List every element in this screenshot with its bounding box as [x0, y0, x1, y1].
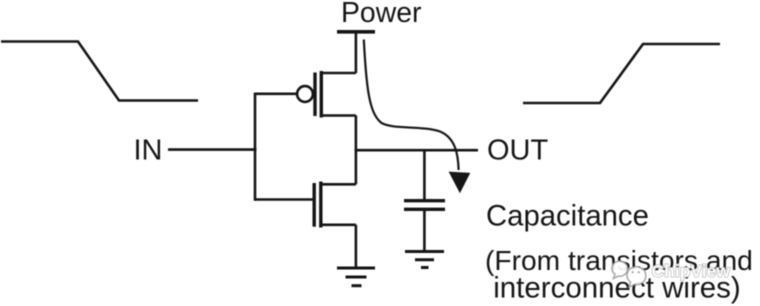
annotation arrow: power-to-output discharge curve	[364, 40, 459, 171]
transistor PMOS: drain lead	[321, 114, 356, 117]
input falling-edge waveform	[1, 42, 198, 101]
svg-text:IN: IN	[134, 135, 163, 167]
wire: power rail to PMOS source	[355, 32, 358, 73]
transistor NMOS: drain lead	[321, 183, 356, 186]
svg-text:Capacitance: Capacitance	[486, 200, 649, 233]
transistor NMOS: source lead	[321, 224, 356, 227]
wire: PMOS drain to output node	[355, 116, 358, 152]
svg-text:OUT: OUT	[487, 135, 549, 167]
svg-text:Power: Power	[341, 0, 421, 29]
svg-text:ChipView: ChipView	[652, 261, 731, 281]
wire OUT	[356, 149, 478, 152]
wire: NMOS gate	[255, 198, 313, 201]
ground (NMOS source)	[337, 268, 375, 286]
transistor PMOS: gate bar	[313, 73, 316, 117]
transistor NMOS: gate bar	[313, 183, 316, 227]
ground (capacitor)	[405, 252, 444, 268]
transistor NMOS: channel bar	[319, 182, 322, 228]
watermark logo: chat bubbles	[612, 261, 646, 287]
wire IN	[168, 148, 257, 151]
transistor PMOS: gate bubble	[297, 86, 313, 102]
capacitor C: bottom stub	[423, 211, 426, 252]
wire: PMOS gate	[255, 93, 298, 96]
wire: input vertical (gate tie)	[254, 93, 257, 201]
capacitor C: plates	[404, 199, 445, 202]
wire: NMOS source to ground	[355, 225, 358, 268]
annotation arrow: arrowhead	[449, 172, 471, 194]
capacitor C: top stub	[423, 150, 426, 199]
transistor PMOS: channel bar	[320, 71, 323, 118]
wire: NMOS drain to output node	[355, 149, 358, 185]
output rising-edge waveform	[523, 44, 720, 103]
transistor PMOS: source lead	[321, 72, 356, 75]
power rail	[337, 30, 375, 34]
